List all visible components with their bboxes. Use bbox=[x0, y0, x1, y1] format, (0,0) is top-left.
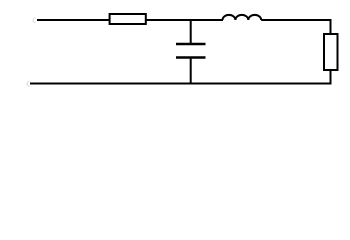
inductor (three humps) bbox=[223, 15, 262, 20]
wire bottom bbox=[30, 83, 331, 85]
node capacitor-top junction bbox=[190, 20, 192, 44]
wire resistor-to-inductor bbox=[146, 19, 223, 21]
faint open-terminal top-left bbox=[33, 18, 35, 23]
resistor series (horizontal box) bbox=[110, 14, 146, 24]
wire inductor-to-right-corner bbox=[261, 20, 330, 34]
resistor load (vertical box) bbox=[324, 34, 338, 70]
wire top-left bbox=[37, 19, 110, 21]
faint open-terminal bottom-left bbox=[27, 81, 29, 86]
capacitor plates bbox=[176, 44, 206, 58]
wire load-to-bottom bbox=[330, 70, 332, 85]
wire capacitor-to-bottom bbox=[190, 58, 192, 85]
